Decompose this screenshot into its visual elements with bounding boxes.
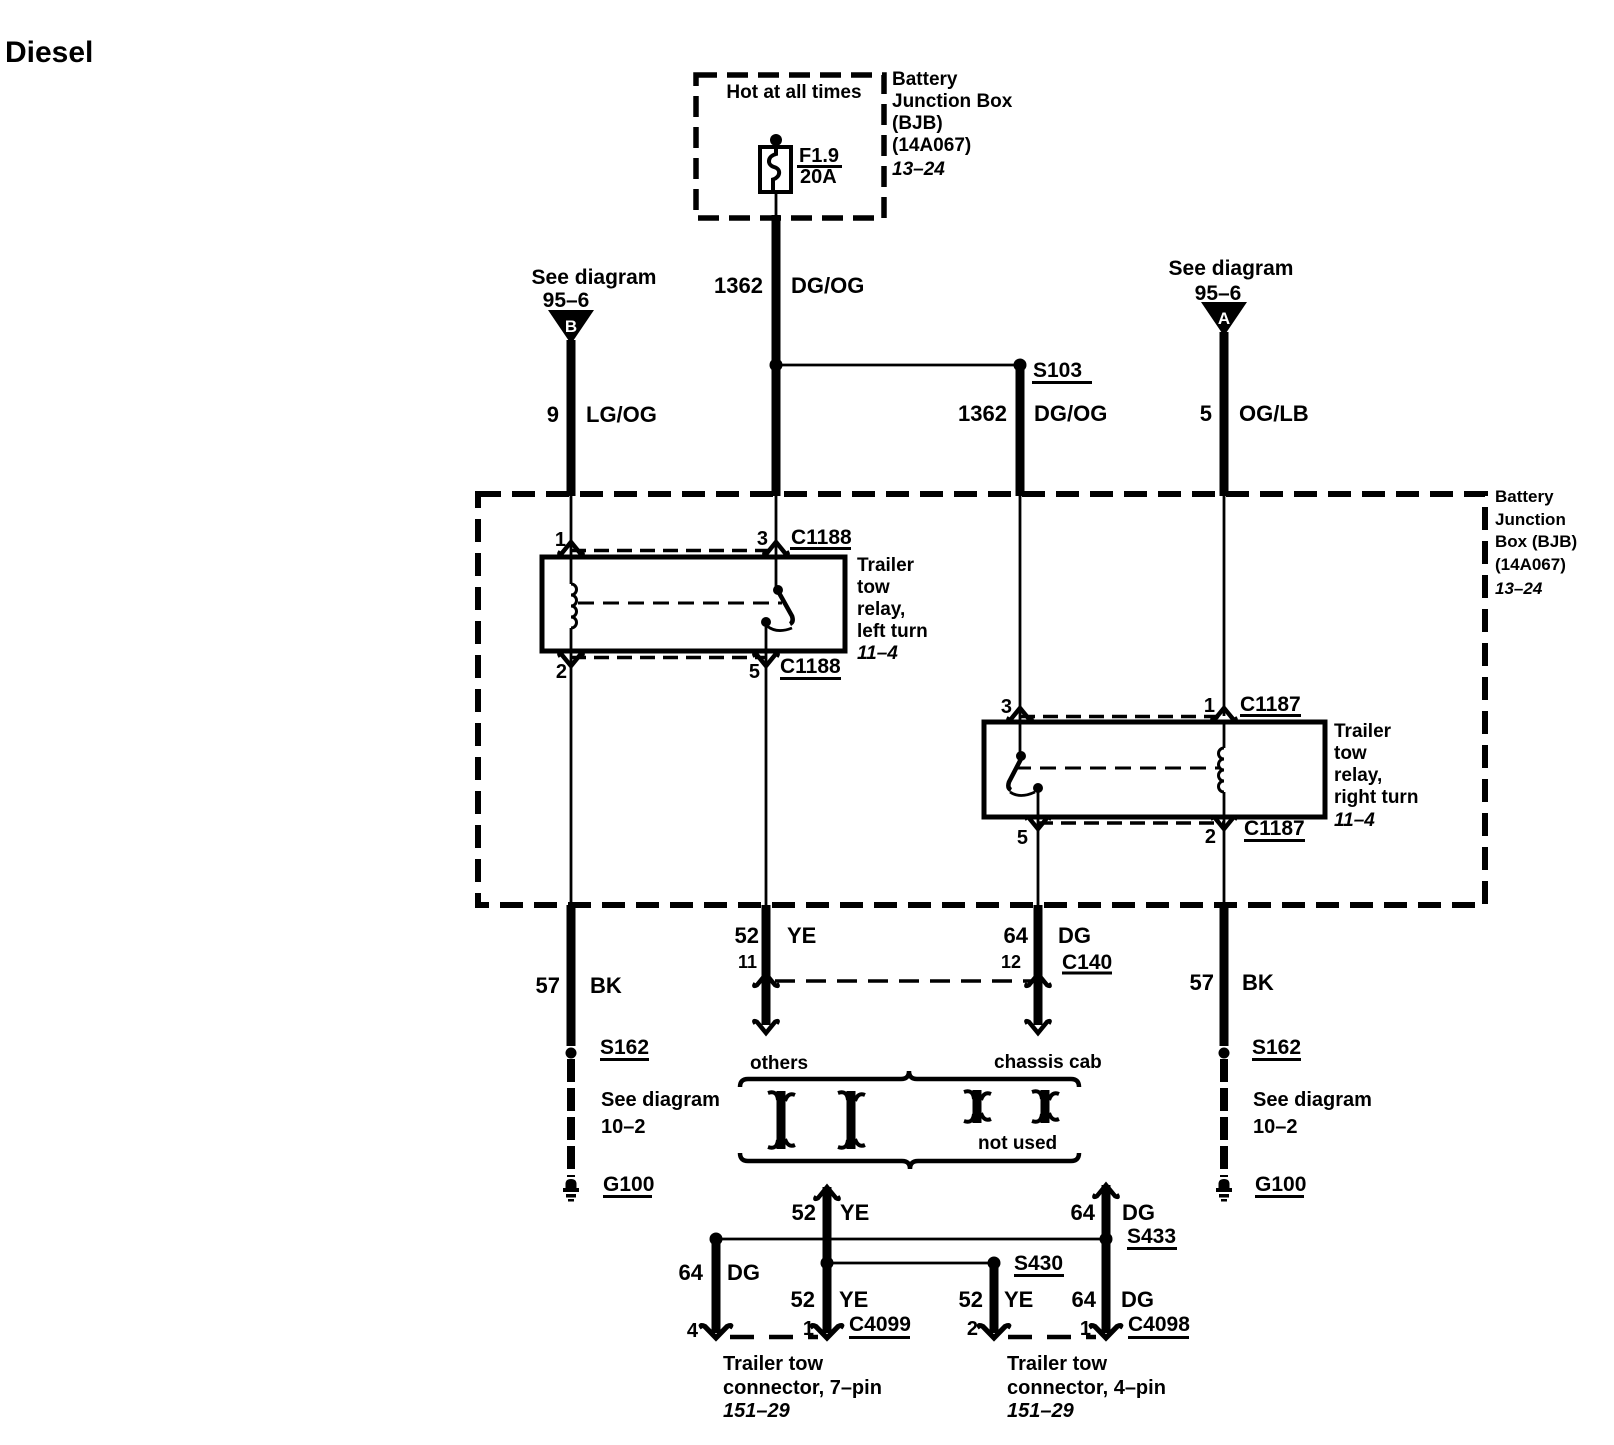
wire 1362 DG/OG S103 branch (1016, 365, 1025, 496)
svg-text:C1188: C1188 (780, 655, 841, 678)
svg-text:G100: G100 (1255, 1173, 1306, 1196)
svg-text:3: 3 (757, 528, 768, 550)
svg-text:S430: S430 (1014, 1252, 1063, 1275)
relay actuation dashed link (578, 602, 782, 605)
svg-text:C4098: C4098 (1128, 1313, 1190, 1336)
svg-text:Trailer tow: Trailer tow (1007, 1353, 1107, 1375)
wire 64 DG below BJB (1034, 905, 1043, 1025)
wire pin3 left (thin inside BJB) (775, 496, 778, 590)
wire end arrow (754, 1021, 777, 1033)
svg-text:9: 9 (547, 402, 559, 427)
trailer tow relay, left turn (542, 557, 845, 651)
relay right label (1334, 721, 1418, 831)
svg-text:13–24: 13–24 (892, 159, 945, 180)
svg-text:YE: YE (1004, 1287, 1033, 1312)
svg-text:A: A (1218, 309, 1230, 328)
svg-text:1362: 1362 (714, 273, 763, 298)
harness arrows others (768, 1091, 795, 1149)
fuse F1.9 20A (760, 134, 842, 192)
svg-text:Trailer tow: Trailer tow (723, 1353, 823, 1375)
ground G100 right (1216, 1179, 1232, 1202)
svg-text:See diagram: See diagram (1253, 1089, 1372, 1111)
svg-text:5: 5 (1200, 401, 1212, 426)
svg-text:(14A067): (14A067) (1495, 555, 1566, 574)
svg-text:2: 2 (967, 1318, 978, 1340)
svg-text:B: B (565, 317, 577, 336)
battery junction box (BJB) main dashed box (478, 494, 1485, 905)
wire pin2 right to BJB bottom (1223, 817, 1226, 907)
svg-text:1: 1 (803, 1318, 814, 1340)
svg-text:LG/OG: LG/OG (586, 402, 657, 427)
svg-text:10–2: 10–2 (1253, 1116, 1298, 1138)
svg-text:1362: 1362 (958, 401, 1007, 426)
svg-text:Trailer: Trailer (857, 555, 915, 576)
svg-text:Battery: Battery (1495, 487, 1554, 506)
svg-text:52: 52 (792, 1200, 816, 1225)
svg-text:YE: YE (787, 923, 816, 948)
svg-text:64: 64 (679, 1260, 704, 1285)
svg-text:11–4: 11–4 (1334, 810, 1375, 831)
svg-text:DG/OG: DG/OG (791, 273, 864, 298)
svg-text:151–29: 151–29 (723, 1400, 791, 1422)
svg-text:151–29: 151–29 (1007, 1400, 1075, 1422)
wire 57 BK right (1220, 905, 1229, 1046)
top brace (740, 1071, 1079, 1087)
relay switch (773, 585, 783, 595)
connector C1187 top pins 3,1 (1001, 693, 1301, 720)
svg-text:20A: 20A (800, 166, 837, 188)
relay actuation dashed link (1015, 767, 1219, 770)
svg-text:See diagram: See diagram (1169, 257, 1294, 280)
wire 57 BK left (567, 905, 576, 1046)
svg-text:See diagram: See diagram (532, 266, 657, 289)
svg-text:others: others (750, 1053, 808, 1074)
wire pin3 right (S103 branch inside BJB) (1019, 496, 1022, 756)
relay coil (1219, 748, 1225, 792)
harness arrows chassis cab (964, 1090, 991, 1123)
svg-text:C4099: C4099 (849, 1313, 911, 1336)
svg-text:connector, 7–pin: connector, 7–pin (723, 1377, 882, 1399)
wire pin1 left (thin inside BJB) (570, 496, 573, 584)
svg-text:2: 2 (1205, 826, 1216, 848)
splice S430 line (821, 1257, 834, 1270)
ground G100 left (563, 1179, 579, 1202)
wire pin1 right (A branch inside BJB) (1223, 496, 1226, 716)
wire 52 YE to 7-pin connector (815, 1187, 838, 1199)
trailer tow connector 4-pin label (1007, 1353, 1166, 1422)
svg-text:right turn: right turn (1334, 787, 1418, 808)
trailer tow connector 4-pin pins (979, 1325, 1008, 1338)
wire 9 LG/OG (567, 340, 576, 496)
svg-text:10–2: 10–2 (601, 1116, 646, 1138)
wire 52 YE S430 branch (990, 1263, 999, 1333)
svg-text:52: 52 (735, 923, 759, 948)
svg-text:2: 2 (556, 661, 567, 683)
svg-text:64: 64 (1004, 923, 1029, 948)
BJB top label (892, 69, 1013, 180)
svg-text:YE: YE (840, 1200, 869, 1225)
svg-text:Battery: Battery (892, 69, 958, 90)
svg-text:Junction Box: Junction Box (892, 91, 1013, 112)
svg-text:Trailer: Trailer (1334, 721, 1392, 742)
wire to ground left (dashed) (567, 1059, 575, 1177)
svg-text:Junction: Junction (1495, 510, 1566, 529)
svg-text:4: 4 (687, 1320, 699, 1342)
wire 5 OG/LB (1220, 332, 1229, 496)
svg-text:64: 64 (1072, 1287, 1097, 1312)
svg-text:11: 11 (738, 952, 757, 972)
svg-text:DG: DG (1058, 923, 1091, 948)
svg-text:(BJB): (BJB) (892, 113, 943, 134)
svg-text:DG: DG (727, 1260, 760, 1285)
bottom brace (740, 1153, 1079, 1169)
svg-text:Diesel: Diesel (5, 36, 93, 69)
svg-text:F1.9: F1.9 (799, 145, 839, 167)
svg-text:C1187: C1187 (1244, 817, 1305, 840)
svg-text:DG/OG: DG/OG (1034, 401, 1107, 426)
svg-text:5: 5 (749, 661, 760, 683)
svg-text:3: 3 (1001, 696, 1012, 718)
svg-text:95–6: 95–6 (1195, 282, 1242, 305)
trailer tow connector 7-pin label (723, 1353, 882, 1422)
wire end arrow (1026, 1021, 1049, 1033)
wire 1362 DG/OG from fuse to BJB (775, 192, 778, 218)
wire 52 YE below BJB (762, 905, 771, 1025)
svg-text:OG/LB: OG/LB (1239, 401, 1309, 426)
svg-text:C1187: C1187 (1240, 693, 1301, 716)
wire to ground right (dashed) (1220, 1059, 1228, 1177)
trailer tow relay, right turn (984, 722, 1325, 817)
svg-text:chassis cab: chassis cab (994, 1052, 1102, 1073)
svg-text:52: 52 (791, 1287, 815, 1312)
svg-text:1: 1 (555, 529, 566, 551)
svg-text:S162: S162 (1252, 1036, 1301, 1059)
svg-text:95–6: 95–6 (543, 289, 590, 312)
svg-text:tow: tow (1334, 743, 1367, 764)
connector C1188 bottom pins 2,5 (556, 654, 841, 683)
svg-text:DG: DG (1122, 1200, 1155, 1225)
svg-text:64: 64 (1071, 1200, 1096, 1225)
svg-text:52: 52 (959, 1287, 983, 1312)
svg-text:11–4: 11–4 (857, 643, 898, 664)
wire pin2 left to BJB bottom (570, 651, 573, 907)
relay coil (571, 584, 577, 628)
svg-text:BK: BK (590, 973, 622, 998)
svg-text:left turn: left turn (857, 621, 928, 642)
svg-text:12: 12 (1001, 952, 1021, 972)
wire pin5 left to BJB bottom (765, 651, 768, 907)
battery junction box (top fuse box) dashed outline (696, 75, 884, 218)
svg-text:S162: S162 (600, 1036, 649, 1059)
svg-text:connector, 4–pin: connector, 4–pin (1007, 1377, 1166, 1399)
splice S433 line (710, 1233, 723, 1246)
svg-text:not used: not used (978, 1133, 1057, 1154)
svg-text:C140: C140 (1062, 951, 1112, 974)
wire 64 DG left branch (712, 1239, 721, 1333)
connector C1187 bottom pins 5,2 (1017, 817, 1305, 849)
connector C1188 top pins 1,3 (555, 526, 852, 554)
svg-text:S103: S103 (1033, 359, 1082, 382)
svg-text:BK: BK (1242, 970, 1274, 995)
svg-text:tow: tow (857, 577, 890, 598)
BJB right label (1495, 487, 1577, 598)
svg-text:relay,: relay, (1334, 765, 1382, 786)
svg-text:relay,: relay, (857, 599, 905, 620)
relay switch (1016, 751, 1026, 761)
svg-text:5: 5 (1017, 827, 1028, 849)
svg-text:(14A067): (14A067) (892, 135, 971, 156)
splice S162 right (1219, 1048, 1230, 1059)
svg-text:DG: DG (1121, 1287, 1154, 1312)
svg-text:57: 57 (1190, 970, 1214, 995)
svg-text:57: 57 (536, 973, 560, 998)
svg-text:C1188: C1188 (791, 526, 852, 549)
svg-text:G100: G100 (603, 1173, 654, 1196)
wire pin5 right to BJB bottom (1037, 817, 1040, 907)
splice S162 left (566, 1048, 577, 1059)
svg-text:Box (BJB): Box (BJB) (1495, 532, 1577, 551)
wire 64 DG to 4-pin connector (1094, 1185, 1117, 1197)
svg-text:Hot at all times: Hot at all times (726, 82, 861, 103)
svg-text:S433: S433 (1127, 1225, 1176, 1248)
svg-text:1: 1 (1204, 695, 1215, 717)
svg-text:13–24: 13–24 (1495, 579, 1543, 598)
trailer tow connector 7-pin pins (701, 1325, 730, 1338)
svg-text:1: 1 (1080, 1318, 1091, 1340)
svg-text:YE: YE (839, 1287, 868, 1312)
splice S103 (770, 359, 783, 372)
svg-text:See diagram: See diagram (601, 1089, 720, 1111)
relay left label (857, 555, 928, 664)
